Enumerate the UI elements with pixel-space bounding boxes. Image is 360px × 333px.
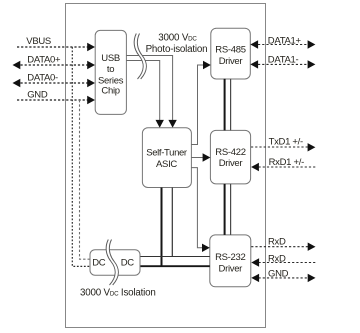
svg-text:ASIC: ASIC: [156, 159, 177, 170]
svg-text:RS-422: RS-422: [215, 147, 245, 158]
svg-text:Photo-isolation: Photo-isolation: [146, 44, 208, 55]
svg-text:3000 VDC: 3000 VDC: [158, 33, 197, 44]
svg-text:TxD1 +/-: TxD1 +/-: [269, 136, 303, 147]
svg-text:DC: DC: [121, 258, 135, 269]
svg-text:DC: DC: [92, 258, 106, 269]
svg-text:RS-232: RS-232: [215, 252, 245, 263]
svg-text:RxD: RxD: [268, 253, 286, 264]
svg-text:to: to: [107, 64, 114, 75]
svg-text:DATA1+: DATA1+: [268, 35, 302, 46]
svg-text:3000 VDC Isolation: 3000 VDC Isolation: [80, 288, 156, 299]
svg-text:GND: GND: [27, 89, 48, 100]
svg-text:USB: USB: [101, 53, 120, 64]
svg-text:Driver: Driver: [219, 56, 243, 67]
svg-text:Driver: Driver: [219, 264, 243, 275]
svg-text:DATA1-: DATA1-: [268, 55, 299, 66]
svg-text:GND: GND: [268, 268, 289, 279]
svg-text:RxD1 +/-: RxD1 +/-: [269, 157, 304, 168]
svg-text:Self-Tuner: Self-Tuner: [146, 148, 187, 159]
svg-text:Chip: Chip: [101, 86, 119, 97]
svg-text:DATA0-: DATA0-: [27, 72, 58, 83]
svg-text:RS-485: RS-485: [215, 44, 245, 55]
svg-text:DATA0+: DATA0+: [27, 54, 61, 65]
svg-text:Driver: Driver: [219, 158, 243, 169]
svg-text:RxD: RxD: [268, 237, 286, 248]
svg-text:VBUS: VBUS: [26, 36, 51, 47]
